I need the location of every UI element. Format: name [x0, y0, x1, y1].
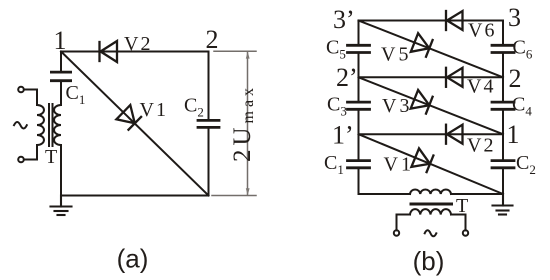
diode V4 [446, 68, 463, 87]
diode V1 (b) [411, 148, 433, 172]
AC input terminal top [18, 87, 24, 93]
diode V2 (a) [100, 41, 118, 62]
svg-text:C2: C2 [184, 95, 204, 120]
svg-text:C1: C1 [66, 82, 86, 107]
wire top rail (a): node 1 to node 2 [61, 51, 209, 53]
svg-text:C6: C6 [513, 37, 533, 62]
capacitor C1 [51, 72, 70, 81]
dimension lines 2Umax [212, 51, 256, 195]
wire left column C3 to 1' [358, 109, 360, 160]
wire right column C6 to node 2 [502, 53, 504, 103]
capacitor C5 [348, 45, 370, 52]
svg-text:C4: C4 [512, 94, 532, 119]
wire diagonal 2' to node 1 [359, 77, 504, 134]
AC input terminal bottom [18, 157, 24, 163]
wire diagonal 1' to bottom right corner [359, 134, 504, 194]
wire right column 3 to C6 [502, 21, 504, 46]
wire right column (a): node 2 down to C2 [208, 52, 210, 121]
svg-text:T: T [45, 146, 57, 168]
wire primary top lead [24, 90, 37, 106]
svg-text:V1: V1 [384, 154, 411, 176]
wire diagonal 3' to node 2 [359, 21, 504, 78]
svg-text:(a): (a) [117, 244, 149, 274]
wire right column C2 to ground corner [502, 168, 504, 194]
wire level 2 rail (b): node 2' to node 2 [359, 76, 504, 78]
ground (a) [51, 196, 72, 216]
capacitor C1 (b) [348, 161, 370, 168]
svg-text:V1: V1 [140, 99, 166, 121]
wire C2 to bottom rail [208, 127, 210, 195]
wire primary bottom lead [24, 145, 37, 160]
wire diagonal node 1 to bottom right corner (a) [61, 52, 209, 196]
AC source symbol ~ [14, 122, 27, 129]
svg-text:3: 3 [508, 3, 521, 32]
capacitor C6 [492, 45, 514, 52]
transformer T (b) core [411, 203, 452, 206]
wire primary left lead (b) [397, 215, 411, 231]
transformer T (b) secondary winding [410, 189, 451, 194]
AC input terminal right (b) [463, 230, 468, 235]
transformer T secondary winding [54, 105, 61, 145]
wire left column C1 to bottom rail [358, 168, 360, 194]
wire right column C4 to node 1 [502, 109, 504, 160]
svg-text:V3: V3 [382, 95, 409, 117]
svg-text:2’: 2’ [336, 63, 358, 92]
svg-text:V5: V5 [381, 44, 408, 66]
svg-text:C3: C3 [327, 94, 347, 119]
svg-text:C2: C2 [516, 152, 536, 177]
wire level 1 rail (b): node 1' to node 1 [359, 133, 504, 135]
wire secondary bottom to bottom rail [60, 145, 62, 196]
diode V6 [446, 11, 463, 30]
wire primary right lead (b) [451, 215, 466, 231]
capacitor C3 [348, 102, 370, 109]
wire bottom rail left segment (b) [359, 193, 411, 195]
diode V5 [411, 33, 433, 57]
ground (b) [493, 194, 513, 215]
diode V2 (b) [446, 125, 463, 144]
svg-text:V2: V2 [467, 135, 493, 157]
svg-text:3’: 3’ [333, 5, 355, 34]
svg-text:T: T [456, 195, 468, 217]
AC input terminal left (b) [394, 230, 399, 235]
svg-text:C1: C1 [324, 152, 344, 177]
svg-text:2: 2 [206, 25, 219, 54]
capacitor C2 (b) [492, 161, 514, 168]
transformer T core [48, 104, 50, 146]
diode V1 (a) [116, 105, 141, 130]
svg-text:1: 1 [54, 26, 67, 55]
svg-text:1: 1 [507, 120, 520, 149]
diode V3 [411, 90, 433, 114]
svg-text:2: 2 [509, 64, 522, 93]
wire left column (a): node 1 down to capacitor C1 [60, 52, 62, 73]
svg-text:2Umax: 2Umax [229, 84, 257, 162]
wire left column 3' to C5 [358, 21, 360, 46]
wire left column C5 to 2' [358, 53, 360, 103]
svg-text:(b): (b) [413, 246, 445, 276]
transformer T primary winding [37, 105, 44, 145]
transformer T (b) primary winding [410, 209, 451, 214]
AC source symbol ~ (b) [425, 230, 437, 236]
wire C1 to transformer secondary [60, 81, 62, 105]
capacitor C2 [198, 120, 219, 127]
wire top rail (b): node 3' to node 3 [359, 20, 504, 22]
capacitor C4 [492, 102, 514, 109]
svg-text:V4: V4 [467, 76, 493, 98]
wire bottom rail right segment (b) [451, 193, 503, 195]
svg-text:V6: V6 [468, 20, 494, 42]
svg-text:1’: 1’ [332, 121, 354, 150]
wire bottom rail (a) [61, 195, 209, 197]
svg-text:V2: V2 [124, 33, 150, 55]
dimension arrowheads [246, 52, 250, 196]
svg-text:C5: C5 [326, 37, 346, 62]
